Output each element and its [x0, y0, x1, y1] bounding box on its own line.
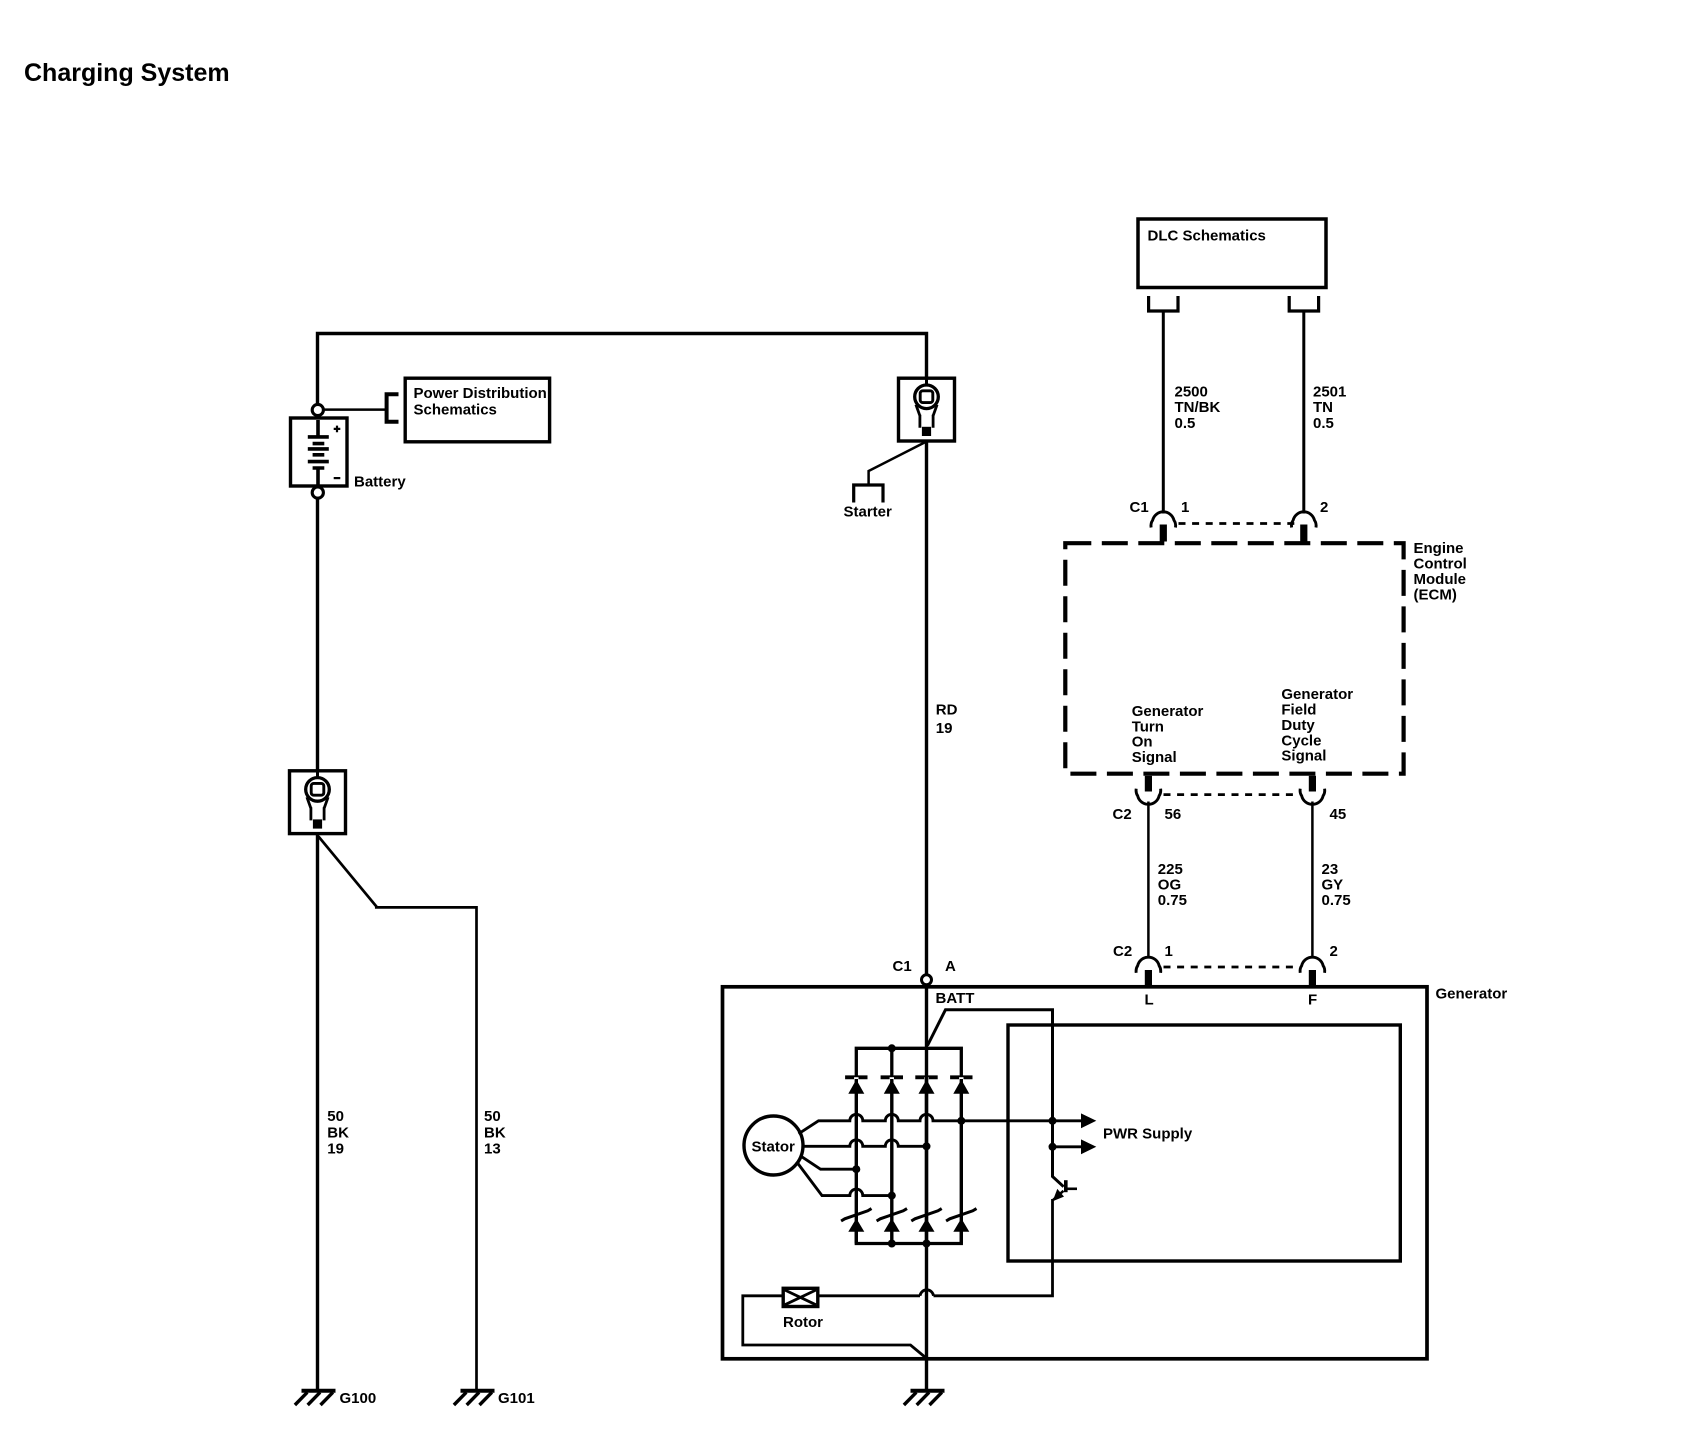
junction pwr2 regulator [1049, 1143, 1057, 1151]
svg-text:TN: TN [1313, 399, 1333, 416]
svg-text:C2: C2 [1113, 806, 1132, 823]
dotted connector line C1 [1179, 522, 1296, 525]
rectifier column 3 [925, 1079, 928, 1244]
DLC bracket pin 1 [1149, 296, 1178, 311]
rectifier column 4 [960, 1079, 963, 1244]
wire rotor loop left [743, 1290, 934, 1358]
wire 2501 TN [1302, 313, 1305, 514]
rectifier bottom bus [856, 1231, 961, 1244]
diode D8 avalanche triangle [953, 1218, 969, 1231]
ground generator bar [911, 1389, 945, 1393]
svg-text:GY: GY [1322, 877, 1344, 894]
svg-text:2: 2 [1320, 499, 1328, 516]
svg-text:Schematics: Schematics [414, 402, 497, 419]
transistor Q1 emitter [1053, 1191, 1063, 1200]
diode D1 bar [845, 1075, 867, 1079]
svg-text:C2: C2 [1113, 943, 1132, 960]
svg-text:PWR Supply: PWR Supply [1103, 1126, 1193, 1143]
wire PWR supply 2 stub [1053, 1145, 1082, 1148]
diode D6 avalanche bar [877, 1209, 907, 1221]
battery B1 cells [308, 420, 329, 485]
junction bottom bus col3 [923, 1240, 931, 1248]
stator phase wire 1 [799, 1114, 1082, 1134]
wire starter terminal down to generator [925, 441, 928, 974]
ground G100 bar [302, 1389, 336, 1393]
svg-text:50: 50 [327, 1108, 344, 1125]
generator box [723, 987, 1428, 1359]
svg-text:19: 19 [936, 720, 953, 737]
ring terminal starter pigtail [925, 378, 928, 397]
svg-text:Generator: Generator [1436, 986, 1508, 1003]
ring terminal starter ring hole [920, 391, 933, 403]
svg-text:Starter: Starter [844, 504, 893, 521]
rectifier column 1 [855, 1079, 858, 1244]
ring terminal left tip [313, 819, 322, 828]
junction phase2 col3 [923, 1142, 931, 1150]
transistor Q1 emitter arrow [1053, 1189, 1064, 1201]
connector C1 pin1 shell [1151, 512, 1176, 528]
svg-text:0.5: 0.5 [1313, 415, 1334, 432]
ground G100 slash 2 [308, 1392, 320, 1405]
transistor Q1 base bar [1064, 1180, 1068, 1192]
diode D1 triangle [848, 1080, 864, 1094]
diode D5 avalanche bar [841, 1209, 871, 1221]
ground G101 slash 3 [480, 1392, 492, 1405]
node connector A [922, 975, 932, 985]
svg-text:G101: G101 [498, 1390, 535, 1407]
diode D3 triangle [919, 1080, 935, 1094]
diode D4 bar center [959, 1075, 964, 1077]
wire 225 OG [1147, 802, 1150, 959]
svg-text:56: 56 [1165, 806, 1182, 823]
arrow PWR supply 2 [1081, 1139, 1096, 1154]
wire main BATT vertical through generator [925, 984, 928, 1390]
rectifier top bus column 2 drop [890, 1048, 893, 1076]
svg-text:0.75: 0.75 [1158, 892, 1187, 909]
svg-text:(ECM): (ECM) [1414, 587, 1457, 604]
svg-text:BK: BK [327, 1124, 349, 1141]
node battery negative [312, 487, 323, 498]
connector C2 pin2 shell [1300, 957, 1325, 973]
diode D2 triangle [884, 1080, 900, 1094]
wire battery negative down to ring terminal [316, 498, 319, 771]
ground G100 slash 3 [321, 1392, 333, 1405]
dotted connector line C2 upper [1164, 793, 1299, 796]
junction phase3 col1 [852, 1165, 860, 1173]
ground G100 slash 1 [295, 1392, 307, 1405]
diode D3 bar [915, 1075, 937, 1079]
ring terminal left ring hole [311, 783, 324, 795]
diode D8 avalanche bar [946, 1209, 976, 1221]
wire 23 GY [1311, 802, 1314, 959]
pin stub C1 pin1 [1160, 525, 1167, 542]
ring terminal starter taper [916, 405, 937, 416]
wire 2500 TN/BK [1162, 313, 1165, 514]
svg-text:225: 225 [1158, 861, 1183, 878]
ECM dashed box [1065, 543, 1403, 774]
svg-text:Engine: Engine [1414, 540, 1464, 557]
battery minus sign [334, 477, 341, 479]
arrow PWR supply 1 [1081, 1113, 1096, 1128]
svg-text:45: 45 [1330, 806, 1347, 823]
dotted connector line C2 lower [1164, 966, 1299, 969]
stator phase wire 3 [802, 1157, 857, 1170]
rectifier top bus [856, 1048, 961, 1076]
svg-text:13: 13 [484, 1140, 501, 1157]
svg-text:F: F [1308, 992, 1317, 1009]
svg-text:0.5: 0.5 [1175, 415, 1196, 432]
svg-text:C1: C1 [893, 958, 912, 975]
DLC bracket pin 2 [1289, 296, 1318, 311]
connector C2 pin1 shell [1136, 957, 1161, 973]
diode D6 avalanche triangle [884, 1218, 900, 1231]
ring terminal starter neck [920, 415, 933, 428]
svg-text:19: 19 [327, 1140, 344, 1157]
svg-text:2: 2 [1330, 943, 1338, 960]
svg-text:Power Distribution: Power Distribution [414, 385, 547, 402]
ground G101 bar [461, 1389, 495, 1393]
junction phase1 col4 [957, 1117, 965, 1125]
off-page bracket to Power Distribution [387, 394, 399, 422]
svg-text:1: 1 [1181, 499, 1189, 516]
junction phase1 regulator [1049, 1117, 1057, 1125]
svg-text:0.75: 0.75 [1322, 892, 1351, 909]
junction bottom bus col2 [888, 1240, 896, 1248]
svg-text:TN/BK: TN/BK [1175, 399, 1221, 416]
svg-text:Rotor: Rotor [783, 1314, 823, 1331]
pin stub C2 pin1 [1145, 970, 1152, 986]
connector C2 pin56 shell [1136, 789, 1161, 805]
wire battery positive branch to power distribution [324, 408, 386, 411]
wire ground G100 run [316, 834, 319, 1389]
svg-text:RD: RD [936, 702, 958, 719]
wire battery-positive to starter top run [318, 334, 927, 406]
ground generator slash 1 [904, 1392, 916, 1405]
wire starter branch [869, 442, 926, 484]
connector C1 pin2 shell [1291, 512, 1316, 528]
svg-text:L: L [1145, 992, 1154, 1009]
svg-text:1: 1 [1165, 943, 1173, 960]
svg-text:Charging System: Charging System [24, 59, 230, 87]
diode D4 triangle [953, 1080, 969, 1094]
pin stub C2 pin56 [1145, 776, 1152, 792]
diode D7 avalanche triangle [919, 1218, 935, 1231]
wire branch to G101 [319, 837, 477, 1390]
svg-text:BATT: BATT [936, 990, 975, 1007]
svg-text:DLC Schematics: DLC Schematics [1148, 228, 1266, 245]
ground generator slash 2 [917, 1392, 929, 1405]
ring terminal left neck [311, 807, 324, 820]
ring terminal starter ring [915, 385, 939, 409]
svg-text:Stator: Stator [752, 1138, 796, 1155]
svg-text:Signal: Signal [1281, 748, 1326, 765]
svg-text:Control: Control [1414, 556, 1467, 573]
diode D7 avalanche bar [911, 1209, 941, 1221]
svg-text:A: A [945, 958, 956, 975]
svg-text:23: 23 [1322, 861, 1339, 878]
diode D4 bar [950, 1075, 972, 1079]
Power Distribution Schematics box [405, 378, 549, 442]
svg-text:C1: C1 [1130, 499, 1149, 516]
rectifier column 2 [890, 1079, 893, 1244]
junction top bus col2 [888, 1044, 896, 1052]
ground generator slash 3 [930, 1392, 942, 1405]
svg-text:G100: G100 [340, 1390, 377, 1407]
ring terminal left taper [307, 797, 328, 808]
node S101 battery positive [312, 404, 323, 415]
svg-text:OG: OG [1158, 877, 1181, 894]
ring terminal left box [290, 771, 346, 834]
svg-text:Battery: Battery [354, 474, 406, 491]
ring terminal starter tip [922, 427, 931, 436]
diode D2 bar [881, 1075, 903, 1079]
ground G101 slash 1 [454, 1392, 466, 1405]
ring terminal left pigtail [316, 771, 319, 790]
battery B1 box [291, 418, 348, 486]
ground G101 slash 2 [467, 1392, 479, 1405]
svg-text:2501: 2501 [1313, 384, 1346, 401]
wire BATT branch diagonal and top run [928, 1010, 1064, 1187]
diode D5 avalanche triangle [848, 1218, 864, 1231]
diode D2 bar center [889, 1075, 894, 1077]
diode D1 bar center [854, 1075, 859, 1077]
ring terminal starter box [899, 378, 955, 441]
battery plus sign [334, 426, 341, 433]
stator circle [744, 1116, 803, 1175]
starter bracket [854, 485, 883, 503]
svg-text:Module: Module [1414, 571, 1467, 588]
diode D3 bar center [924, 1075, 929, 1077]
svg-text:BK: BK [484, 1124, 506, 1141]
svg-text:Signal: Signal [1132, 749, 1177, 766]
connector C2 pin45 shell [1300, 789, 1325, 805]
voltage regulator inner box [1008, 1025, 1400, 1261]
transistor Q1 base lead [1066, 1188, 1077, 1191]
DLC Schematics box [1138, 219, 1326, 288]
pin stub C2 pin45 [1309, 776, 1316, 792]
svg-text:50: 50 [484, 1108, 501, 1125]
rotor coil box [783, 1288, 818, 1306]
svg-text:2500: 2500 [1175, 384, 1208, 401]
rotor coil X [785, 1290, 816, 1305]
stator phase wire 2 [803, 1140, 927, 1146]
stator phase wire 4 [797, 1162, 892, 1196]
ring terminal left ring [306, 778, 330, 802]
pin stub C1 pin2 [1300, 525, 1307, 542]
wire regulator to rotor [934, 1199, 1053, 1296]
junction phase4 col2 [888, 1192, 896, 1200]
pin stub C2 pin2 [1309, 970, 1316, 986]
